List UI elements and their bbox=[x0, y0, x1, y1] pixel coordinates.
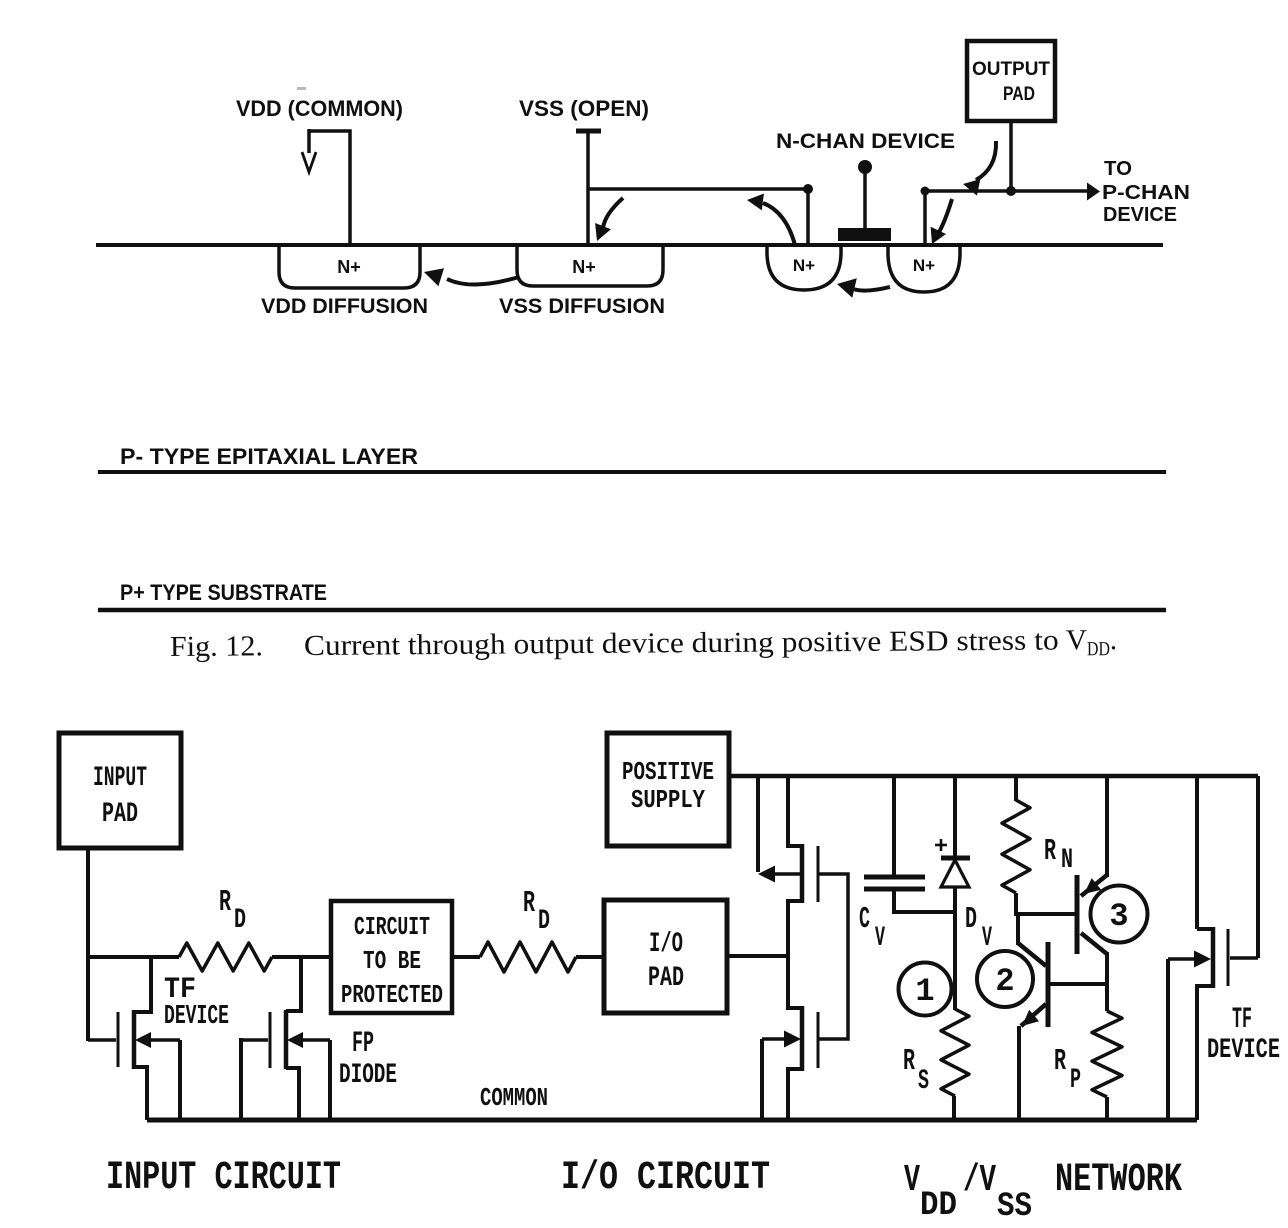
N+ VDD diffusion tub bbox=[279, 247, 420, 288]
capacitor CV plates bbox=[864, 875, 925, 880]
svg-text:CIRCUIT: CIRCUIT bbox=[354, 912, 430, 942]
svg-text:DD: DD bbox=[920, 1187, 957, 1223]
resistor RD1 bbox=[179, 943, 272, 971]
wire RD1 to circuit box bbox=[272, 955, 331, 959]
N+ drain tub (n-chan) bbox=[767, 247, 841, 290]
svg-text:/V: /V bbox=[963, 1159, 996, 1202]
svg-text:OUTPUT: OUTPUT bbox=[972, 59, 1050, 80]
Q2 collector lead bbox=[1018, 943, 1046, 966]
POSITIVE SUPPLY box bbox=[607, 733, 729, 846]
current arrow under gate bbox=[853, 287, 890, 291]
svg-text:P+ TYPE SUBSTRATE: P+ TYPE SUBSTRATE bbox=[120, 580, 327, 605]
wire input node to RD1 bbox=[86, 955, 179, 959]
svg-text:FP: FP bbox=[352, 1027, 374, 1061]
resistor RN feed bbox=[1014, 776, 1018, 801]
svg-text:INPUT CIRCUIT: INPUT CIRCUIT bbox=[106, 1156, 341, 1201]
right TF device channel bar bbox=[1211, 927, 1216, 988]
svg-text:N+: N+ bbox=[337, 257, 361, 277]
svg-text:N+: N+ bbox=[793, 256, 815, 275]
svg-text:DEVICE: DEVICE bbox=[1103, 204, 1177, 226]
circled node 1 bbox=[899, 963, 952, 1016]
svg-text:N-CHAN DEVICE: N-CHAN DEVICE bbox=[776, 130, 955, 153]
diode DV cathode bar bbox=[941, 856, 970, 861]
svg-text:VSS (OPEN): VSS (OPEN) bbox=[519, 96, 649, 121]
gate electrode bbox=[838, 228, 891, 241]
svg-text:2: 2 bbox=[995, 963, 1014, 1000]
svg-text:SS: SS bbox=[997, 1188, 1032, 1223]
svg-text:N+: N+ bbox=[913, 256, 935, 275]
figure caption bbox=[170, 624, 1117, 667]
CIRCUIT TO BE PROTECTED box bbox=[331, 901, 452, 1013]
driver PMOS channel bar bbox=[800, 844, 805, 903]
driver gate tie wire bbox=[818, 874, 848, 1039]
resistor RS bbox=[941, 1009, 969, 1096]
svg-text:R: R bbox=[1054, 1044, 1066, 1079]
plus sign at DV bbox=[940, 839, 943, 851]
TF device channel bar bbox=[132, 1010, 137, 1069]
TF device bulk arrow lead bbox=[148, 1038, 180, 1042]
svg-text:DIODE: DIODE bbox=[339, 1060, 397, 1091]
VDD top rail bbox=[729, 774, 1258, 779]
svg-text:I/O: I/O bbox=[649, 929, 683, 960]
Q2 base bar bbox=[1046, 942, 1051, 1027]
wire output node to source tub bbox=[923, 189, 927, 245]
wire to p-chan device bbox=[925, 189, 1088, 193]
svg-text:1: 1 bbox=[915, 973, 934, 1010]
Q3 base bar bbox=[1075, 875, 1080, 954]
gate terminal dot bbox=[858, 160, 872, 174]
TF device gate lead bbox=[88, 1038, 116, 1042]
svg-text:V: V bbox=[875, 923, 885, 954]
VSS common rail bbox=[147, 1118, 1197, 1123]
right TF device gate bar bbox=[1227, 929, 1230, 986]
svg-text:PAD: PAD bbox=[1003, 84, 1035, 105]
right TF device gate lead bbox=[1230, 956, 1258, 960]
TF device gate bar bbox=[117, 1012, 120, 1067]
svg-text:DEVICE: DEVICE bbox=[164, 1002, 229, 1032]
svg-text:V: V bbox=[982, 923, 992, 954]
svg-text:N: N bbox=[1061, 845, 1073, 876]
Q2 base lead bbox=[1048, 982, 1107, 986]
circled node 2 bbox=[977, 951, 1033, 1007]
driver NMOS channel bar bbox=[800, 1006, 805, 1071]
svg-text:D: D bbox=[538, 906, 550, 937]
current arrow from output pad lead bbox=[976, 141, 996, 180]
driver NMOS gate bar bbox=[817, 1012, 820, 1068]
wire INPUT PAD down to TF gate bbox=[86, 848, 90, 1041]
wire VSS supply lead bbox=[576, 129, 601, 134]
right TF device drain lead bbox=[1197, 776, 1213, 929]
resistor RN bbox=[1002, 800, 1030, 893]
N+ VSS diffusion tub bbox=[517, 247, 663, 286]
svg-text:P- TYPE EPITAXIAL LAYER: P- TYPE EPITAXIAL LAYER bbox=[120, 444, 418, 469]
diode DV cathode feed bbox=[953, 776, 957, 857]
TF device source lead bbox=[134, 1067, 147, 1120]
wire OUTPUT PAD to output node bbox=[1009, 122, 1013, 191]
svg-text:PAD: PAD bbox=[102, 799, 138, 830]
driver PMOS gate bar bbox=[817, 846, 820, 902]
right TF device bulk arrow lead bbox=[1168, 957, 1196, 961]
svg-text:D: D bbox=[965, 902, 977, 937]
capacitor CV bottom lead bbox=[894, 889, 955, 912]
svg-text:PAD: PAD bbox=[648, 963, 684, 994]
svg-text:SUPPLY: SUPPLY bbox=[631, 785, 705, 815]
epitaxial layer line bbox=[98, 470, 1166, 474]
svg-text:R: R bbox=[903, 1044, 915, 1079]
svg-text:S: S bbox=[918, 1066, 929, 1097]
OUTPUT PAD box bbox=[967, 41, 1055, 121]
svg-text:COMMON: COMMON bbox=[480, 1083, 548, 1113]
open arrowhead on VDD lead (current exit) bbox=[302, 152, 316, 172]
svg-text:TO BE: TO BE bbox=[363, 946, 421, 976]
junction dot output node bbox=[1006, 186, 1016, 196]
circled node 3 bbox=[1091, 886, 1148, 943]
I/O PAD box bbox=[604, 900, 727, 1013]
svg-text:TO: TO bbox=[1104, 158, 1132, 180]
driver PMOS source lead bbox=[788, 901, 802, 1008]
svg-text:DEVICE: DEVICE bbox=[1207, 1035, 1280, 1066]
current arrow into source tub bbox=[938, 199, 952, 234]
svg-text:I/O CIRCUIT: I/O CIRCUIT bbox=[561, 1156, 770, 1201]
FP diode drain lead bbox=[286, 957, 301, 1011]
svg-text:PROTECTED: PROTECTED bbox=[341, 980, 443, 1010]
svg-text:V: V bbox=[904, 1159, 920, 1202]
driver NMOS bulk arrow lead bbox=[762, 1037, 786, 1041]
driver PMOS bulk arrow lead bbox=[771, 872, 802, 876]
current arrow into VSS diffusion bbox=[603, 198, 623, 228]
TF device drain lead bbox=[134, 957, 151, 1012]
wire VSS branch to n-chan drain bbox=[588, 189, 808, 245]
scan speck bbox=[297, 87, 306, 90]
svg-text:POSITIVE: POSITIVE bbox=[622, 757, 714, 787]
resistor RP bbox=[1092, 1011, 1122, 1097]
diode DV anode line bbox=[953, 886, 957, 1010]
FP diode bulk arrow lead bbox=[300, 1038, 330, 1042]
capacitor CV top feed bbox=[892, 776, 896, 877]
junction dot on drain branch bbox=[803, 184, 813, 194]
FP diode source lead bbox=[286, 1068, 299, 1120]
svg-text:3: 3 bbox=[1109, 898, 1128, 935]
INPUT PAD box bbox=[59, 733, 181, 848]
svg-text:Fig. 12.Current through output: Fig. 12.Current through output device du… bbox=[170, 624, 1117, 667]
FP diode channel bar bbox=[284, 1010, 289, 1069]
current arrow VSS diffusion to VDD diffusion bbox=[447, 277, 519, 285]
svg-text:INPUT: INPUT bbox=[93, 763, 147, 794]
svg-text:P-CHAN: P-CHAN bbox=[1102, 182, 1190, 204]
resistor RD2 bbox=[480, 942, 576, 972]
FP diode gate bar bbox=[269, 1012, 272, 1068]
svg-text:C: C bbox=[859, 902, 870, 937]
Q3 collector lead bbox=[1081, 933, 1107, 954]
gate lead bbox=[863, 167, 867, 229]
substrate line bbox=[98, 608, 1166, 613]
current arrow up drain wire bbox=[763, 203, 795, 245]
driver PMOS drain lead bbox=[788, 776, 802, 846]
wire circuit box to RD2 bbox=[452, 955, 480, 959]
svg-text:R: R bbox=[523, 886, 535, 921]
Q3 emitter lead bbox=[1081, 875, 1107, 896]
diode DV triangle bbox=[941, 860, 969, 887]
svg-text:D: D bbox=[234, 905, 246, 936]
silicon surface line bbox=[96, 243, 1163, 247]
driver NMOS drain lead bbox=[788, 1006, 802, 1008]
Q2 emitter lead bbox=[1021, 1004, 1046, 1026]
svg-text:R: R bbox=[1044, 834, 1056, 869]
FP diode gate lead bbox=[241, 1038, 268, 1042]
svg-text:VDD DIFFUSION: VDD DIFFUSION bbox=[261, 295, 428, 318]
svg-text:R: R bbox=[219, 885, 231, 920]
svg-text:P: P bbox=[1070, 1065, 1081, 1096]
svg-text:NETWORK: NETWORK bbox=[1055, 1158, 1182, 1203]
svg-text:VDD (COMMON): VDD (COMMON) bbox=[236, 96, 403, 121]
svg-text:TF: TF bbox=[1232, 1003, 1252, 1037]
N+ source tub (n-chan) bbox=[888, 247, 960, 292]
svg-text:N+: N+ bbox=[572, 257, 596, 277]
svg-text:VSS DIFFUSION: VSS DIFFUSION bbox=[499, 295, 665, 318]
right TF device source lead bbox=[1197, 986, 1213, 1120]
Q3 base lead bbox=[1016, 912, 1075, 916]
wire RD2 to I/O PAD bbox=[576, 955, 604, 959]
driver NMOS source lead bbox=[788, 1069, 802, 1120]
wire I/O PAD to driver gate node bbox=[727, 954, 790, 958]
wire VDD supply lead bbox=[309, 131, 350, 245]
